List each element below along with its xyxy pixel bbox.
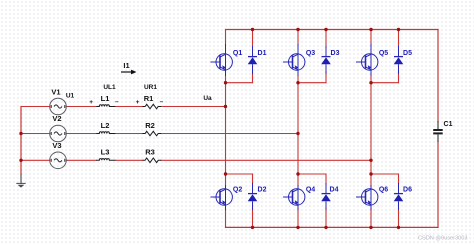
wire leg2 D3 cathode from rail [325,30,327,48]
svg-text:CSDN @9user3003: CSDN @9user3003 [418,236,468,242]
wire phase C: V3 to L3 [66,159,96,161]
svg-text:L3: L3 [101,148,110,157]
wire leg3 Q6 collector lead [370,174,372,186]
svg-text:–: – [115,99,119,106]
wire top DC rail [226,29,439,31]
resistor R3 [143,158,162,163]
voltage source V1 [50,98,67,115]
wire V1 left lead [21,106,50,108]
svg-text:+: + [136,99,140,106]
wire leg3 Q6 emitter to bottom rail [370,209,372,227]
node left bus / V3 [19,159,22,162]
svg-text:Q2: Q2 [233,186,242,193]
node phase B / leg2 [296,132,299,135]
node junction dots [19,28,400,229]
wire leg1 D2 cathode lead [252,174,254,184]
wire right DC rail lower (from capacitor) [437,142,439,228]
wire leg3 midpoint vertical [370,83,372,174]
node leg1 upper connector [224,81,227,84]
wire leg3 D5 anode to connector [398,72,400,83]
node top rail / Q5 [369,28,372,31]
wire leg3 Q5 emitter to connector [370,76,372,83]
wire leg2 D4 cathode lead [325,174,327,184]
svg-text:D6: D6 [403,186,412,193]
node top rail / D1 [251,28,254,31]
svg-text:D3: D3 [331,50,340,57]
voltage source V2 [50,125,67,142]
wire phase C: R3 to bridge leg 3 [161,159,371,161]
inductor L2 [96,132,115,134]
node leg3 lower connector [369,172,372,175]
wire leg1 Q1 emitter to connector [225,76,227,83]
capacitor C1 [433,121,443,142]
wire phase C: L3 to R3 [115,159,142,161]
ground [16,183,25,187]
wire phase A: V1 to L1 [66,106,96,108]
transistor Q2 [211,185,233,210]
transistor Q4 [283,185,305,210]
svg-text:C1: C1 [444,121,453,128]
wire leg2 Q4 emitter to bottom rail [297,209,299,227]
inductor L1 [96,105,115,107]
svg-text:Q1: Q1 [233,50,242,57]
svg-text:–: – [160,98,164,105]
wire leg2 lower connector Q4-D4 [298,173,326,175]
node bottom rail / D2 [251,226,254,229]
node left bus / V2 [19,132,22,135]
svg-text:L1: L1 [101,94,110,103]
node leg1 lower connector [224,172,227,175]
wire phase B: R2 to bridge leg 2 [161,133,298,135]
node leg2 lower connector [296,172,299,175]
wire leg3 D6 anode to bottom rail [398,208,400,227]
transistor Q1 [211,44,233,76]
wire leg1 Q2 collector lead [225,174,227,186]
wire leg2 midpoint vertical [297,83,299,174]
svg-text:R1: R1 [144,94,154,103]
diode D5 [394,46,404,74]
svg-text:Q5: Q5 [379,50,388,57]
wire leg2 Q4 collector lead [297,174,299,186]
wire V2 left lead [21,133,50,135]
diode D4 [321,183,331,210]
wire leg2 Q3 collector from rail [297,30,299,46]
wire leg2 Q3 emitter to connector [297,76,299,83]
wire leg1 Q2 emitter to bottom rail [225,209,227,227]
wire leg2 upper connector Q3-D3 [298,82,326,84]
current arrow I1 [121,70,137,75]
diode D2 [248,183,258,210]
wire leg1 upper connector Q1-D1 [226,82,253,84]
svg-text:UR1: UR1 [144,84,157,91]
node phase C / leg3 [369,159,372,162]
svg-text:UL1: UL1 [103,84,116,91]
wire leg1 D1 anode to connector [252,72,254,83]
wire phase A: L1 to R1 [115,106,142,108]
resistor R1 [143,104,162,109]
wire leg3 D5 cathode from rail [398,30,400,48]
wire leg1 midpoint vertical (connector to phase A and down) [225,83,227,174]
svg-text:Q4: Q4 [306,186,315,193]
wire leg1 Q1 collector from rail [225,30,227,46]
diode D6 [394,183,404,210]
svg-text:D5: D5 [403,50,412,57]
svg-text:V3: V3 [52,141,61,150]
wire leg1 D2 anode to bottom rail [252,208,254,227]
wire phase A: R1 to bridge leg 1 [161,106,225,108]
svg-text:V2: V2 [52,114,61,123]
transistor Q6 [356,185,378,210]
wire phase B: L2 to R2 [115,133,142,135]
wire leg1 lower connector Q2-D2 [226,173,253,175]
svg-text:U1: U1 [66,93,75,100]
svg-text:D2: D2 [258,186,267,193]
node top rail / D3 [324,28,327,31]
svg-text:Ua: Ua [203,95,212,102]
inductor L3 [96,159,115,161]
wire bottom DC rail [226,226,439,228]
node leg2 upper connector [296,81,299,84]
svg-text:R3: R3 [145,148,155,157]
svg-text:D1: D1 [258,50,267,57]
wire leg3 lower connector Q6-D6 [371,173,399,175]
wire left source bus vertical [20,107,22,175]
svg-text:+: + [89,99,93,106]
node top rail / Q3 [296,28,299,31]
diode D3 [321,46,331,74]
wire left bus to ground lead [20,175,22,184]
svg-text:V1: V1 [51,88,60,97]
wire phase B: V2 to L2 [66,133,96,135]
svg-text:Q6: Q6 [379,186,388,193]
wire leg2 D4 anode to bottom rail [325,208,327,227]
wire V3 left lead [21,159,50,161]
svg-text:Q3: Q3 [306,50,315,57]
node phase A / leg1 [224,105,227,108]
node bottom rail / Q4 [296,226,299,229]
node leg3 upper connector [369,81,372,84]
wire leg2 D3 anode to connector [325,72,327,83]
svg-text:L2: L2 [101,121,110,130]
wire right DC rail upper (to capacitor) [437,30,439,122]
wire leg3 D6 cathode lead [398,174,400,184]
voltage source V3 [50,152,67,169]
resistor R2 [143,131,162,136]
transistor Q5 [356,44,378,76]
node bottom rail / Q6 [369,226,372,229]
diode D1 [248,46,258,74]
node bottom rail / D4 [324,226,327,229]
wire leg1 D1 cathode from rail [252,30,254,48]
wire leg3 Q5 collector from rail [370,30,372,46]
node top rail / D5 [397,28,400,31]
svg-text:R2: R2 [145,121,155,130]
wire leg3 upper connector Q5-D5 [371,82,399,84]
svg-text:I1: I1 [123,61,129,70]
node bottom rail / D6 [397,226,400,229]
transistor Q3 [283,44,305,76]
svg-text:D4: D4 [330,186,339,193]
